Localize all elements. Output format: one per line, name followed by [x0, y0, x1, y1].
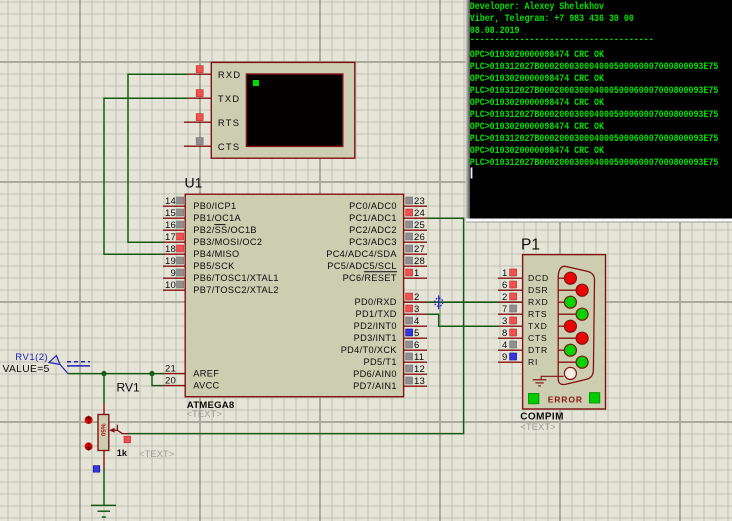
U1 pin 2 PD0/RXD: [355, 292, 427, 307]
microcontroller U1 ATMEGA8: [185, 175, 404, 420]
P1 DB9 pin circle SHIELD: [564, 367, 576, 379]
U1 pin 6 PD4/T0/XCK: [341, 340, 427, 355]
U1 pin 26 PC3/ADC3: [349, 232, 427, 247]
svg-text:OPC>0103020000098474 CRC OK: OPC>0103020000098474 CRC OK: [470, 96, 605, 108]
overline SS (PB2): [215, 224, 226, 226]
P1 DB9 lead CTS: [558, 337, 576, 339]
U1 pin 9 PB6/TOSC1/XTAL1: [163, 268, 279, 283]
svg-text:OPC>0103020000098474 CRC OK: OPC>0103020000098474 CRC OK: [470, 120, 605, 132]
P1 pin 4 DTR: [498, 340, 548, 355]
svg-text:13: 13: [414, 376, 425, 387]
COMPIM P1: [521, 237, 606, 410]
P1 pin 2 RXD: [498, 292, 549, 307]
P1 pin 9 RI: [498, 352, 538, 367]
svg-text:PC3/ADC3: PC3/ADC3: [349, 237, 397, 247]
U1 pin 21 AREF: [163, 364, 219, 379]
U1 pin 23 PC0/ADC0: [349, 196, 427, 211]
svg-text:Viber, Telegram: +7 983 436 30: Viber, Telegram: +7 983 436 30 00: [470, 12, 634, 24]
svg-text:27: 27: [414, 244, 425, 255]
VT screen: [246, 74, 342, 146]
svg-text:------------------------------: -------------------------------------: [470, 33, 654, 45]
svg-text:4: 4: [502, 340, 507, 351]
svg-text:PB0/ICP1: PB0/ICP1: [193, 201, 236, 211]
svg-text:PB3/MOSI/OC2: PB3/MOSI/OC2: [193, 237, 262, 247]
RV1 wiper arrow: [117, 425, 127, 434]
P1 DB9 pin circle DSR: [576, 284, 588, 296]
svg-text:RXD: RXD: [218, 70, 242, 80]
P1 DB9 pin circle DCD: [564, 272, 576, 284]
svg-text:<TEXT>: <TEXT>: [139, 449, 175, 460]
U1 pin 16 PB2/SS/OC1B: [163, 220, 257, 235]
svg-text:PC0/ADC0: PC0/ADC0: [349, 201, 397, 211]
svg-text:7: 7: [502, 304, 507, 315]
P1 error indicator right: [589, 393, 599, 403]
P1 DB9 lead DCD: [558, 277, 564, 279]
P1 DB9 lead RTS: [558, 313, 576, 315]
U1 pin 15 PB1/OC1A: [163, 208, 242, 223]
svg-text:9: 9: [502, 352, 507, 363]
VT pin RXD: [188, 73, 212, 75]
svg-text:TXD: TXD: [218, 94, 241, 104]
svg-text:5: 5: [414, 328, 419, 339]
RV1 adjust marker bottom: [85, 442, 93, 450]
svg-text:PB4/MISO: PB4/MISO: [193, 249, 239, 259]
svg-text:1: 1: [502, 268, 507, 279]
U1 pin 5 PD3/INT1: [354, 328, 427, 343]
wire: RV1 bottom to ground: [103, 469, 105, 506]
node: wire origin crosshair on PD0 net: [435, 295, 443, 309]
svg-text:25: 25: [414, 220, 425, 231]
U1 pin 3 PD1/TXD: [356, 304, 427, 319]
svg-text:PD3/INT1: PD3/INT1: [354, 333, 397, 343]
RV1 adjust marker top: [85, 416, 93, 424]
U1 pin 18 PB4/MISO: [163, 244, 240, 259]
svg-text:PB5/SCK: PB5/SCK: [193, 261, 235, 271]
svg-text:10: 10: [165, 280, 176, 291]
svg-text:PLC>010312027B0002000300040005: PLC>010312027B00020003000400050006000700…: [470, 156, 719, 168]
svg-text:PD1/TXD: PD1/TXD: [356, 309, 397, 319]
svg-text:PC5/ADC5/SCL: PC5/ADC5/SCL: [327, 261, 397, 271]
svg-text:11: 11: [414, 352, 424, 363]
svg-text:PLC>010312027B0002000300040005: PLC>010312027B00020003000400050006000700…: [470, 60, 719, 72]
svg-text:PB1/OC1A: PB1/OC1A: [193, 213, 241, 223]
svg-text:8: 8: [502, 328, 507, 339]
P1 DB9 pin circle CTS: [576, 332, 588, 344]
wire: probe node to AREF pin21: [68, 373, 164, 375]
svg-text:2: 2: [414, 292, 419, 303]
svg-text:DSR: DSR: [528, 285, 549, 295]
svg-text:PD7/AIN1: PD7/AIN1: [353, 381, 397, 391]
svg-text:AREF: AREF: [193, 369, 219, 379]
wire: VT TXD to U1 pin18 PB4: [104, 98, 188, 254]
VT pin CTS: [184, 145, 211, 147]
U1 pin 17 PB3/MOSI/OC2: [163, 232, 262, 247]
junction dot A (AREF net / RV1 top): [101, 371, 106, 376]
svg-text:PD5/T1: PD5/T1: [364, 357, 397, 367]
svg-text:1: 1: [414, 268, 419, 279]
svg-text:U1: U1: [185, 175, 203, 191]
console cursor: [471, 168, 473, 179]
U1 pin 11 PD5/T1: [364, 352, 427, 367]
P1 DB9 pin circle DTR: [564, 344, 576, 356]
svg-text:23: 23: [414, 196, 425, 207]
U1 pin 24 PC1/ADC1: [349, 208, 427, 223]
P1 error indicator left: [529, 393, 539, 403]
svg-text:ERROR: ERROR: [548, 395, 583, 405]
svg-text:OPC>0103020000098474 CRC OK: OPC>0103020000098474 CRC OK: [470, 72, 605, 84]
wire: U1 pin3 PD1/TXD to P1 pin3 TXD: [427, 314, 498, 326]
svg-text:24: 24: [414, 208, 425, 219]
P1 DB9 pin circle RTS: [576, 308, 588, 320]
RV1 bottom terminal stub: [103, 451, 105, 470]
svg-text:OPC>0103020000098474 CRC OK: OPC>0103020000098474 CRC OK: [470, 48, 605, 60]
RV1 bottom state square (blue): [93, 466, 100, 473]
svg-text:17: 17: [165, 232, 176, 243]
U1 pin 10 PB7/TOSC2/XTAL2: [163, 280, 279, 295]
VT pin RTS: [184, 121, 211, 123]
U1 pin 1 PC6/RESET: [343, 268, 427, 283]
svg-text:<TEXT>: <TEXT>: [187, 409, 223, 420]
svg-text:RI: RI: [528, 357, 538, 367]
P1 pin 8 CTS: [498, 328, 548, 343]
svg-text:3: 3: [502, 316, 507, 327]
P1 pin 1 DCD: [498, 268, 549, 283]
U1 pin 13 PD7/AIN1: [353, 376, 427, 391]
svg-text:PD2/INT0: PD2/INT0: [354, 321, 397, 331]
svg-text:CTS: CTS: [218, 142, 241, 152]
wire: RV1 wiper to U1 pin24 PC1/ADC1: [128, 218, 464, 433]
svg-text:PLC>010312027B0002000300040005: PLC>010312027B00020003000400050006000700…: [470, 108, 719, 120]
RV1 top terminal stub: [103, 403, 105, 416]
RV1 wiper state square (red): [124, 436, 131, 443]
P1 pin 6 DSR: [498, 280, 549, 295]
U1 pin 25 PC2/ADC2: [349, 220, 427, 235]
svg-text:26: 26: [414, 232, 425, 243]
svg-text:CTS: CTS: [528, 333, 548, 343]
svg-text:PD0/RXD: PD0/RXD: [355, 297, 397, 307]
P1 shield ground: [533, 376, 564, 386]
P1 DB9 lead RXD: [558, 301, 564, 303]
svg-text:PC6/RESET: PC6/RESET: [343, 273, 397, 283]
ground: [91, 505, 116, 517]
wire: U1 pin2 PD0/RXD to P1 pin2 RXD: [427, 301, 498, 303]
U1 pin 19 PB5/SCK: [163, 256, 235, 271]
svg-text:14: 14: [165, 196, 176, 207]
svg-text:PLC>010312027B0002000300040005: PLC>010312027B00020003000400050006000700…: [470, 84, 719, 96]
svg-text:12: 12: [414, 364, 425, 375]
U1 pin 27 PC4/ADC4/SDA: [326, 244, 427, 259]
svg-text:16: 16: [165, 220, 176, 231]
svg-text:3: 3: [414, 304, 419, 315]
wire: junction to AVCC pin20: [152, 374, 164, 386]
svg-text:PC1/ADC1: PC1/ADC1: [349, 213, 397, 223]
junction dot B (AREF net / AVCC branch): [149, 371, 154, 376]
svg-text:RV1: RV1: [117, 381, 140, 395]
U1 pin 4 PD2/INT0: [354, 316, 427, 331]
svg-text:2: 2: [502, 292, 507, 303]
P1 DB9 lead TXD: [558, 325, 564, 327]
P1 pin 3 TXD: [498, 316, 548, 331]
P1 DB9 connector outline: [558, 266, 594, 384]
voltage probe RV1(2): [3, 352, 91, 375]
svg-text:6: 6: [414, 340, 419, 351]
U1 pin 20 AVCC: [163, 376, 220, 391]
svg-text:RV1(2): RV1(2): [15, 352, 48, 363]
svg-text:19: 19: [165, 256, 176, 267]
svg-text:1k: 1k: [117, 448, 128, 458]
svg-text:TXD: TXD: [528, 321, 548, 331]
svg-text:4: 4: [414, 316, 419, 327]
svg-text:PC4/ADC4/SDA: PC4/ADC4/SDA: [326, 249, 397, 259]
svg-text:18: 18: [165, 244, 176, 255]
P1 DB9 pin circle TXD: [564, 320, 576, 332]
VT pin TXD: [188, 97, 212, 99]
svg-text:DCD: DCD: [528, 273, 549, 283]
VT cursor block: [253, 80, 259, 86]
svg-text:PD6/AIN0: PD6/AIN0: [353, 369, 397, 379]
svg-text:20: 20: [165, 376, 176, 387]
U1 pin 12 PD6/AIN0: [353, 364, 427, 379]
console terminal window: [466, 0, 732, 223]
U1 pin 14 PB0/ICP1: [163, 196, 236, 211]
wire: junction down to RV1 top: [103, 374, 105, 403]
svg-text:RTS: RTS: [528, 309, 547, 319]
svg-text:RXD: RXD: [528, 297, 549, 307]
svg-text:6: 6: [502, 280, 507, 291]
svg-text:PB6/TOSC1/XTAL1: PB6/TOSC1/XTAL1: [193, 273, 279, 283]
svg-text:Developer: Alexey Shelekhov: Developer: Alexey Shelekhov: [470, 0, 605, 12]
P1 DB9 lead DTR: [558, 349, 564, 351]
overline RESET (PC6): [364, 271, 397, 273]
svg-text:21: 21: [165, 364, 176, 375]
svg-text:9: 9: [171, 268, 176, 279]
potentiometer RV1: [85, 381, 175, 473]
svg-text:COMPIM: COMPIM: [520, 411, 564, 422]
svg-text:OPC>0103020000098474 CRC OK: OPC>0103020000098474 CRC OK: [470, 144, 605, 156]
svg-text:RTS: RTS: [218, 118, 240, 128]
P1 DB9 lead DSR: [558, 289, 576, 291]
svg-text:VALUE=5: VALUE=5: [3, 364, 50, 375]
svg-text:PB7/TOSC2/XTAL2: PB7/TOSC2/XTAL2: [193, 285, 279, 295]
P1 pin 7 RTS: [498, 304, 547, 319]
svg-text:PD4/T0/XCK: PD4/T0/XCK: [341, 345, 398, 355]
P1 DB9 pin circle RXD: [564, 296, 576, 308]
P1 DB9 pin circle RI: [576, 356, 588, 368]
svg-text:<TEXT>: <TEXT>: [520, 422, 556, 433]
virtual terminal VT1 body: [184, 62, 355, 158]
wire: VT RXD to U1 pin17 PB3: [128, 74, 188, 242]
svg-text:AVCC: AVCC: [193, 381, 219, 391]
svg-text:PC2/ADC2: PC2/ADC2: [349, 225, 397, 235]
svg-text:28: 28: [414, 256, 425, 267]
RV1 body: [98, 415, 109, 451]
svg-text:15: 15: [165, 208, 176, 219]
U1 pin 28 PC5/ADC5/SCL: [327, 256, 427, 271]
svg-text:%50: %50: [99, 424, 106, 437]
svg-text:P1: P1: [521, 237, 540, 254]
svg-text:DTR: DTR: [528, 345, 548, 355]
svg-text:PB2/SS/OC1B: PB2/SS/OC1B: [193, 225, 257, 235]
P1 DB9 lead RI: [558, 361, 576, 363]
svg-text:PLC>010312027B0002000300040005: PLC>010312027B00020003000400050006000700…: [470, 132, 719, 144]
